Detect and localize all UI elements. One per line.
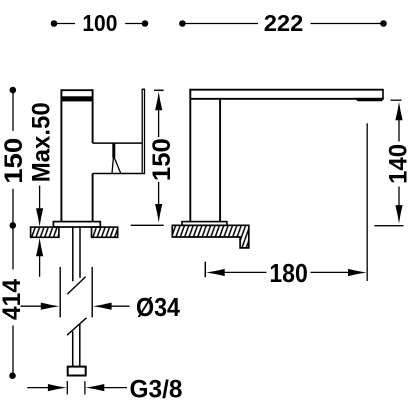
faucet front view: column left edge	[189, 89, 191, 222]
faucet side view: spout cross-section black stripe	[61, 96, 93, 101]
G3/8 connection nut	[68, 367, 86, 376]
dimension G3/8	[27, 375, 182, 403]
svg-text:150: 150	[148, 138, 176, 181]
spout tip extension line	[366, 123, 368, 281]
faucet front view: spout bar top edge	[189, 89, 383, 91]
counter slab left (left of hole), hatched	[31, 227, 59, 237]
svg-text:180: 180	[269, 260, 308, 288]
Max.50 annotation	[27, 102, 55, 276]
faucet front view: spout outlet black tip	[354, 98, 383, 101]
dimension 180	[205, 260, 366, 288]
dimension 140	[374, 100, 412, 226]
svg-text:100: 100	[82, 10, 117, 36]
dimension 222 (top right)	[179, 10, 387, 36]
break mark upper	[67, 277, 85, 295]
faucet front view: spout bar bottom edge	[190, 98, 383, 100]
svg-text:150: 150	[0, 138, 28, 184]
faucet side view: body right edge upper	[92, 89, 94, 143]
faucet front view: column right edge	[219, 99, 221, 222]
dimension Ø34	[21, 267, 181, 322]
faucet side view: handle blade	[142, 89, 146, 173]
middle dimension 150	[131, 90, 176, 225]
counter slab right (L-section), hatched	[172, 225, 249, 248]
faucet side view: step line to handle	[93, 142, 142, 144]
faucet front view: base flange	[182, 222, 227, 226]
svg-text:414: 414	[0, 279, 26, 320]
faucet side view: bottom line of handle recess	[93, 173, 146, 175]
dimension 100 (top left)	[51, 10, 149, 36]
svg-text:G3/8: G3/8	[130, 375, 183, 403]
svg-text:Max.50: Max.50	[27, 102, 55, 182]
supply shank lower segment	[73, 324, 80, 367]
supply shank upper segment	[73, 227, 80, 281]
svg-text:140: 140	[384, 144, 412, 184]
svg-text:Ø34: Ø34	[136, 294, 181, 322]
faucet side view: body right edge lower	[92, 174, 94, 222]
svg-text:222: 222	[264, 10, 304, 36]
counter slab left (right of hole), hatched	[92, 227, 118, 237]
faucet side view: base flange	[53, 222, 100, 227]
faucet side view: body left edge	[60, 89, 62, 221]
faucet front view: spout bar right end	[382, 89, 384, 100]
faucet side view: cartridge lever detail	[112, 143, 121, 173]
left dimension chain: 150 over 414	[0, 87, 28, 379]
faucet side view: body top edge	[61, 89, 94, 91]
break mark lower	[67, 318, 87, 335]
